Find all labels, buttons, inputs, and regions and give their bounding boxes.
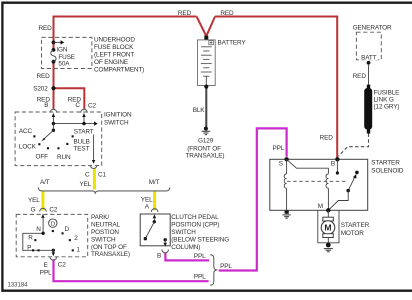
svg-text:PPL: PPL bbox=[40, 269, 52, 276]
svg-text:BATTERY: BATTERY bbox=[218, 40, 247, 47]
svg-text:G: G bbox=[31, 207, 36, 214]
svg-text:B: B bbox=[157, 253, 161, 260]
svg-text:STARTER: STARTER bbox=[341, 222, 370, 229]
svg-text:(ON TOP OF: (ON TOP OF bbox=[91, 244, 127, 251]
svg-text:TRANSAXLE): TRANSAXLE) bbox=[186, 153, 225, 160]
svg-text:FUSIBLE: FUSIBLE bbox=[374, 90, 400, 97]
svg-text:M: M bbox=[324, 223, 331, 233]
svg-text:LINK G: LINK G bbox=[374, 97, 394, 104]
svg-text:NEUTRAL: NEUTRAL bbox=[91, 222, 121, 229]
svg-text:P: P bbox=[27, 245, 31, 252]
svg-text:C1: C1 bbox=[98, 172, 106, 179]
svg-text:RED: RED bbox=[320, 135, 334, 142]
svg-text:YEL: YEL bbox=[141, 196, 153, 203]
svg-text:RED: RED bbox=[353, 73, 367, 80]
svg-text:YEL: YEL bbox=[28, 197, 40, 204]
svg-text:A/T: A/T bbox=[40, 179, 50, 186]
svg-text:ACC: ACC bbox=[19, 128, 33, 135]
svg-text:STARTER: STARTER bbox=[371, 159, 400, 166]
svg-text:M/T: M/T bbox=[149, 179, 160, 186]
svg-text:LOCK: LOCK bbox=[19, 143, 37, 150]
svg-text:RED: RED bbox=[39, 25, 53, 32]
svg-text:MOTOR: MOTOR bbox=[341, 230, 365, 237]
svg-text:RED: RED bbox=[178, 10, 192, 17]
svg-text:M: M bbox=[318, 203, 323, 210]
svg-text:B: B bbox=[44, 102, 48, 109]
svg-text:TRANSAXLE): TRANSAXLE) bbox=[91, 251, 130, 258]
svg-text:SWITCH: SWITCH bbox=[171, 229, 196, 236]
svg-text:1: 1 bbox=[77, 246, 81, 253]
svg-text:BLK: BLK bbox=[193, 107, 206, 114]
svg-text:(FRONT OF: (FRONT OF bbox=[187, 145, 221, 152]
svg-text:C2: C2 bbox=[49, 207, 57, 214]
svg-text:BULB: BULB bbox=[74, 139, 90, 146]
svg-text:PPL: PPL bbox=[273, 145, 285, 152]
svg-text:IGN: IGN bbox=[56, 46, 68, 53]
svg-text:S: S bbox=[279, 161, 283, 168]
svg-text:UNDERHOOD: UNDERHOOD bbox=[94, 37, 135, 44]
svg-text:FUSE BLOCK: FUSE BLOCK bbox=[94, 44, 134, 51]
svg-text:OFF: OFF bbox=[36, 154, 49, 161]
svg-text:50A: 50A bbox=[58, 61, 70, 68]
svg-text:PPL: PPL bbox=[220, 263, 232, 270]
svg-text:IGNITION: IGNITION bbox=[104, 112, 132, 119]
svg-text:RED: RED bbox=[220, 10, 234, 17]
svg-text:GENERATOR: GENERATOR bbox=[353, 24, 392, 31]
svg-text:C: C bbox=[85, 172, 90, 179]
svg-text:RED: RED bbox=[37, 73, 51, 80]
svg-text:SWITCH: SWITCH bbox=[104, 120, 129, 127]
svg-text:G129: G129 bbox=[198, 137, 214, 144]
svg-text:OF ENGINE: OF ENGINE bbox=[94, 59, 128, 66]
svg-text:D: D bbox=[65, 226, 70, 233]
svg-text:SOLENOID: SOLENOID bbox=[371, 167, 404, 174]
svg-text:E: E bbox=[44, 262, 48, 269]
svg-text:D: D bbox=[51, 221, 55, 227]
svg-text:S202: S202 bbox=[33, 86, 48, 93]
svg-text:PPL: PPL bbox=[194, 274, 206, 281]
svg-text:START: START bbox=[74, 128, 94, 135]
svg-text:POSITION (CPP): POSITION (CPP) bbox=[171, 222, 219, 229]
svg-text:2: 2 bbox=[74, 235, 78, 242]
svg-text:YEL: YEL bbox=[80, 181, 92, 188]
svg-text:COMPARTMENT): COMPARTMENT) bbox=[94, 67, 144, 74]
svg-text:(12 GRY): (12 GRY) bbox=[374, 104, 400, 111]
svg-text:R: R bbox=[28, 235, 33, 242]
svg-text:SWITCH: SWITCH bbox=[91, 236, 116, 243]
svg-text:COLUMN): COLUMN) bbox=[171, 244, 200, 251]
svg-text:(BELOW STEERING: (BELOW STEERING bbox=[171, 237, 229, 244]
svg-text:133184: 133184 bbox=[8, 282, 29, 288]
svg-text:(LEFT FRONT: (LEFT FRONT bbox=[94, 52, 134, 59]
svg-text:PARK/: PARK/ bbox=[91, 214, 109, 221]
svg-text:CLUTCH PEDAL: CLUTCH PEDAL bbox=[171, 214, 219, 221]
svg-text:TEST: TEST bbox=[74, 146, 90, 153]
svg-text:B: B bbox=[331, 161, 335, 168]
svg-text:C2: C2 bbox=[58, 261, 66, 268]
svg-text:C2: C2 bbox=[88, 103, 96, 110]
svg-text:C: C bbox=[75, 102, 80, 109]
svg-text:BATT: BATT bbox=[361, 55, 377, 62]
svg-text:POSTION: POSTION bbox=[91, 229, 119, 236]
svg-text:PPL: PPL bbox=[194, 253, 206, 260]
svg-text:N: N bbox=[36, 226, 41, 233]
svg-text:RUN: RUN bbox=[57, 154, 71, 161]
